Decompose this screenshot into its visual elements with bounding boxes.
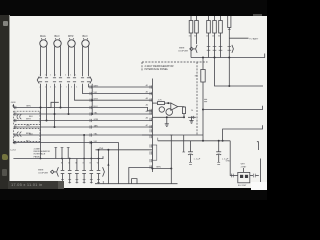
wire drop D2 — [170, 135, 172, 184]
label panel lower — [34, 148, 51, 159]
wire leads from lamps — [41, 46, 89, 76]
svg-text:PANEL: PANEL — [34, 155, 42, 158]
arrow GRN — [12, 104, 14, 108]
junction U1 out — [151, 168, 153, 170]
junction lead9-row5 — [91, 113, 93, 115]
svg-text:A1: A1 — [146, 84, 148, 87]
lamp B3 — [68, 38, 75, 47]
connector C3 dashed box — [14, 129, 40, 142]
resistor R3 — [201, 58, 205, 141]
fuse F2 — [195, 14, 199, 44]
wire row8 — [13, 134, 152, 136]
fuse F5 — [219, 14, 223, 58]
resistor R2 — [183, 107, 186, 114]
wire R1 in — [152, 102, 157, 104]
wire drop W8 — [40, 84, 42, 159]
wire row9 — [13, 143, 118, 184]
label compressor — [241, 164, 247, 169]
junction lead9-row3 — [91, 99, 93, 101]
svg-text:A3: A3 — [146, 97, 148, 100]
wire comp out — [256, 175, 259, 177]
coupler pin bottom ticks — [61, 180, 100, 183]
svg-text:WHT: WHT — [241, 164, 246, 166]
wire R2 out — [183, 114, 185, 118]
status text — [8, 181, 61, 189]
wire lead9 — [91, 84, 93, 114]
hook right edge — [257, 142, 259, 150]
contact pad M1a — [240, 175, 243, 178]
svg-text:INTERFACE PANEL: INTERFACE PANEL — [145, 67, 169, 71]
row colour labels — [94, 85, 99, 127]
svg-text:4.7K: 4.7K — [158, 99, 163, 101]
wire row4 — [13, 108, 152, 111]
transistor Q2 — [159, 107, 164, 112]
wire net N2 — [215, 58, 264, 87]
wire step S1 — [48, 102, 59, 107]
left row labels — [26, 106, 34, 143]
wire row5 — [13, 113, 152, 115]
wire F6 down — [228, 58, 230, 87]
wire coupler label lower — [38, 170, 49, 175]
svg-text:REFRIGERATOR: REFRIGERATOR — [34, 150, 51, 153]
op-amp U2 — [171, 103, 178, 110]
wire net N4 — [223, 125, 263, 141]
junction N3 — [202, 109, 204, 111]
left end ticks — [14, 106, 16, 144]
svg-text:A5: A5 — [146, 110, 148, 113]
svg-text:BLK: BLK — [29, 134, 34, 136]
svg-text:( .1 μF: ( .1 μF — [194, 158, 201, 160]
coupler J3 contacts — [207, 47, 231, 51]
wire net N5 — [158, 140, 230, 142]
junction N5a — [202, 140, 204, 142]
label comp below — [238, 185, 247, 187]
svg-text:VIO: VIO — [94, 92, 98, 94]
contact ticks comp left — [232, 174, 234, 178]
svg-text:MAG: MAG — [40, 35, 46, 38]
fuse F1 — [189, 14, 193, 58]
svg-text:MTR: MTR — [68, 35, 74, 38]
coupler feed drops — [83, 134, 99, 159]
junction W8-row4 — [40, 107, 42, 109]
wire stubs above bottom bus — [54, 147, 69, 158]
lamp B4 — [82, 38, 89, 47]
wire row6 — [13, 120, 152, 122]
coupler J2 contacts — [61, 170, 101, 173]
wire U1 out — [152, 168, 171, 170]
svg-text:TAN: TAN — [94, 124, 99, 127]
svg-text:GRN: GRN — [11, 102, 16, 104]
wire net N3 — [203, 106, 263, 110]
svg-text:11111111: 11111111 — [40, 75, 81, 77]
wire U2 out — [178, 106, 184, 108]
svg-text:INTERFACE: INTERFACE — [34, 153, 46, 156]
coupler arrow upper — [190, 47, 196, 50]
toolbar icon 3 — [2, 169, 7, 176]
wire coupler label upper — [178, 47, 189, 52]
wire U1 out left — [129, 168, 153, 184]
contact pad M1b — [245, 175, 248, 178]
wire comp top — [243, 168, 245, 172]
junction F6-N2 — [228, 85, 230, 87]
coupler J2 brackets — [57, 167, 59, 176]
wire bottom rail — [95, 183, 178, 185]
svg-text:WIRE: WIRE — [179, 47, 185, 49]
diode D1 — [188, 116, 196, 119]
panel pin ticks — [150, 85, 152, 168]
svg-text:A7: A7 — [146, 124, 148, 127]
svg-text:BLO: BLO — [55, 35, 60, 38]
contact ticks comp right — [254, 174, 256, 178]
tick N5 left — [157, 138, 159, 141]
svg-text:VIO: VIO — [94, 141, 98, 143]
wire drop D3 — [183, 135, 185, 152]
toolbar icon hand — [2, 154, 8, 161]
wire lead2 — [46, 84, 48, 121]
connector C2 dashed box — [14, 111, 40, 124]
svg-text:TO BATT: TO BATT — [249, 37, 259, 40]
junction R1 — [167, 102, 169, 104]
ground G2 — [165, 116, 169, 126]
svg-text:BLO: BLO — [83, 35, 88, 38]
wire to compressor — [230, 141, 233, 176]
topbar mark — [253, 14, 262, 17]
wire comp left link — [233, 175, 237, 177]
wire arrow A1 — [107, 149, 109, 184]
svg-text:2-WAY: 2-WAY — [34, 148, 41, 151]
lamp B2 — [54, 38, 61, 47]
svg-text:4 WAY: 4 WAY — [241, 165, 247, 168]
svg-text:BLK WHT: BLK WHT — [238, 185, 247, 187]
junction lead2-row6 — [46, 120, 48, 122]
interface panel U1 dashed outline — [142, 62, 208, 135]
ground G1 — [189, 117, 193, 123]
junction row9 left — [13, 142, 15, 144]
left toolbar sidebar — [0, 15, 9, 189]
wire R1 out — [165, 102, 172, 104]
junction feed b — [214, 57, 216, 59]
capacitor C2 — [216, 141, 221, 165]
svg-text:30: 30 — [194, 36, 196, 38]
coupler pin wires — [63, 159, 99, 184]
coupler J3 bracket — [196, 45, 198, 53]
connector C2 contacts — [17, 114, 21, 119]
wire row1 — [89, 84, 153, 87]
bus U1 left — [151, 79, 153, 173]
junction feed a — [202, 57, 204, 59]
svg-text:COUPLER: COUPLER — [38, 173, 49, 175]
fuse F4 — [213, 14, 217, 58]
svg-text:A6: A6 — [146, 117, 148, 120]
schematic page — [0, 0, 267, 200]
wire lead3 — [54, 84, 56, 127]
fuse F6 — [228, 15, 231, 58]
connector J1 row — [37, 77, 92, 84]
wire row2 — [83, 84, 153, 94]
wire bottom bus — [13, 156, 103, 158]
label panel U1 — [145, 64, 174, 71]
svg-text:GRN: GRN — [226, 160, 231, 162]
capacitor C1 — [188, 141, 193, 165]
resistor R1 — [158, 102, 165, 105]
wire comp right link — [250, 175, 253, 177]
wire panel bottom ext — [142, 134, 203, 136]
lamp B1 — [40, 38, 47, 47]
svg-text:15: 15 — [189, 36, 191, 38]
fuse F3 — [207, 14, 211, 58]
junction lead5-row4 — [60, 107, 62, 109]
junction N4 — [222, 140, 224, 142]
svg-text:A2: A2 — [146, 91, 148, 94]
status divider — [58, 181, 64, 189]
top black bar — [0, 0, 267, 16]
wire right edge drop — [260, 159, 262, 185]
tick D3 — [182, 151, 185, 153]
tick D2 top — [170, 134, 173, 136]
junctions bottom bus — [40, 158, 100, 160]
svg-text:WHT: WHT — [26, 119, 31, 121]
svg-text:GRN: GRN — [156, 167, 161, 169]
connector ticks N3 — [204, 99, 207, 102]
wire main feed — [191, 54, 265, 58]
svg-text:C-214: C-214 — [10, 150, 17, 152]
compressor block M1 — [238, 172, 250, 182]
svg-text:GRN: GRN — [94, 119, 99, 121]
pin labels at panel — [146, 84, 148, 127]
bottom black bar — [0, 188, 267, 200]
junction R2 — [183, 116, 185, 118]
junction lead3-row7 — [54, 126, 56, 128]
wire to batt — [229, 37, 248, 39]
svg-text:GRY: GRY — [94, 99, 99, 101]
svg-text:A4: A4 — [146, 104, 148, 107]
coupler J3 close bracket — [232, 45, 234, 53]
svg-text:20: 20 — [212, 36, 214, 38]
wire lead4 — [68, 84, 70, 114]
junction U1 out-D2 — [170, 168, 172, 170]
svg-text:COUPLER: COUPLER — [178, 50, 189, 52]
junction lead3-row5 — [54, 113, 56, 115]
wire row10 — [96, 149, 153, 151]
row mid ticks — [90, 85, 92, 144]
svg-text:WHT: WHT — [94, 85, 99, 87]
heater H1 — [132, 179, 137, 184]
svg-text:PNK: PNK — [99, 148, 104, 150]
wire lead5 — [60, 84, 62, 108]
svg-text:24: 24 — [191, 110, 193, 112]
junction feed c — [228, 57, 230, 59]
tick rail left — [102, 181, 104, 184]
svg-text:60: 60 — [218, 36, 220, 38]
svg-text:GRN: GRN — [26, 106, 31, 108]
junction lead4-row5 — [68, 113, 70, 115]
toolbar icon 1 — [3, 21, 8, 26]
scrollbar corner — [251, 182, 267, 190]
wire row3 — [75, 84, 153, 100]
connector C3 contacts — [17, 132, 21, 137]
svg-text:BLU: BLU — [94, 106, 99, 108]
junction N5b — [218, 140, 220, 142]
svg-text:15: 15 — [206, 36, 208, 38]
svg-text:BGBGBW: BGBGBW — [61, 163, 104, 165]
wire row7 — [13, 126, 152, 128]
svg-text:MA: MA — [195, 75, 199, 78]
wire net N1 — [152, 116, 184, 118]
coupler arrow lower — [51, 170, 57, 173]
connector block K1 — [152, 145, 156, 160]
svg-text:WIRE: WIRE — [38, 170, 44, 172]
transistor Q1 — [166, 109, 173, 116]
